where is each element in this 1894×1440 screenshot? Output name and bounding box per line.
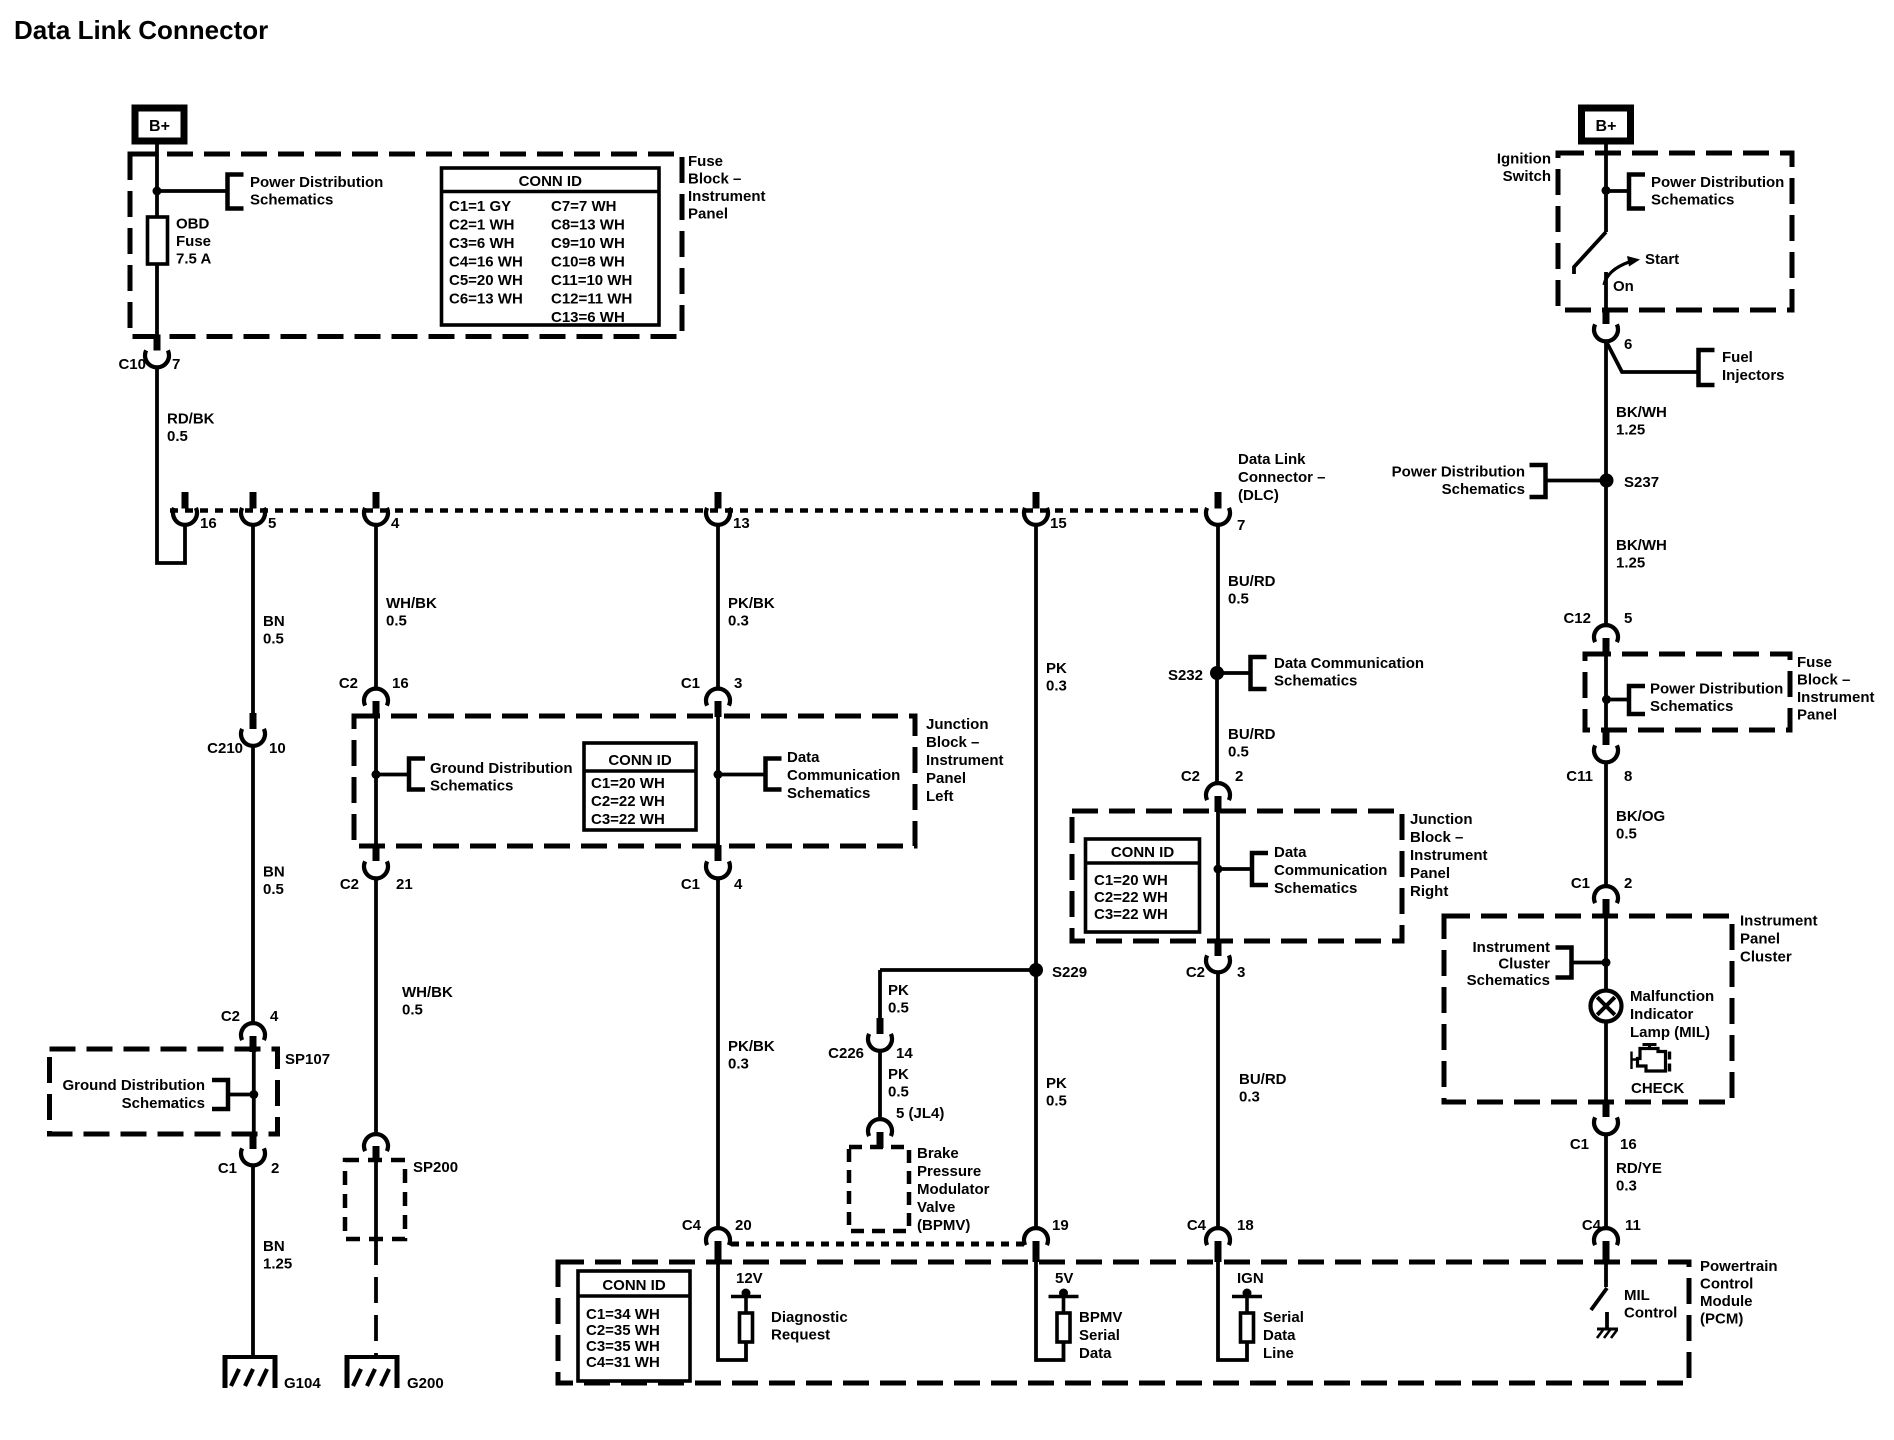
svg-text:C3=22 WH: C3=22 WH	[591, 811, 665, 828]
svg-text:Pressure: Pressure	[917, 1163, 981, 1180]
svg-text:0.3: 0.3	[1616, 1178, 1637, 1195]
svg-text:Start: Start	[1645, 251, 1679, 268]
svg-text:Power Distribution: Power Distribution	[1392, 464, 1525, 481]
DLC connector pin 5	[241, 492, 276, 532]
svg-text:0.5: 0.5	[263, 881, 284, 898]
label BPMV Serial Data	[1079, 1309, 1122, 1362]
svg-text:(BPMV): (BPMV)	[917, 1217, 970, 1234]
wire label RD/BK 0.5	[167, 411, 215, 446]
svg-text:Schematics: Schematics	[1467, 972, 1550, 989]
wire through junction block left (pin3-4)	[716, 717, 720, 846]
wire S232 down	[1215, 673, 1219, 783]
label Brake Pressure Modulator Valve (BPMV)	[917, 1145, 990, 1234]
svg-text:Instrument: Instrument	[1472, 939, 1550, 956]
node junction JB-right	[1214, 865, 1223, 874]
bracket to Power Distribution Schematics (ignition)	[1629, 175, 1645, 209]
ignition switch dashed box	[1558, 153, 1792, 310]
resistor BPMV serial data (5V pull-up)	[1036, 1262, 1079, 1360]
svg-text:7: 7	[1237, 517, 1245, 534]
svg-text:C4=31 WH: C4=31 WH	[586, 1354, 660, 1371]
connector C1 pin 3 (into junction block left)	[681, 675, 743, 717]
svg-text:1.25: 1.25	[263, 1256, 292, 1273]
svg-text:2: 2	[271, 1160, 279, 1177]
svg-text:Schematics: Schematics	[122, 1095, 205, 1112]
svg-text:5: 5	[268, 515, 276, 532]
svg-text:C10=8 WH: C10=8 WH	[551, 254, 625, 271]
wire label PK/BK 0.3 (lower)	[728, 1038, 775, 1073]
wire C226 to BPMV	[878, 1051, 882, 1119]
svg-text:On: On	[1613, 278, 1634, 295]
label Junction Block - Instrument Panel Right	[1410, 811, 1488, 900]
svg-text:(PCM): (PCM)	[1700, 1311, 1743, 1328]
svg-text:14: 14	[896, 1045, 913, 1062]
svg-text:Instrument: Instrument	[1740, 913, 1818, 930]
svg-text:Left: Left	[926, 788, 954, 805]
svg-text:Junction: Junction	[926, 716, 989, 733]
svg-text:0.5: 0.5	[263, 631, 284, 648]
wire label PK/BK 0.3 (upper)	[728, 595, 775, 630]
wire through junction block left (pin16-21)	[374, 717, 378, 846]
MIL control switch to ground	[1605, 1312, 1609, 1328]
svg-text:Schematics: Schematics	[1274, 673, 1357, 690]
svg-text:11: 11	[1625, 1217, 1641, 1234]
wire S237 to bracket (left)	[1546, 479, 1606, 483]
svg-text:0.5: 0.5	[1228, 591, 1249, 608]
label Malfunction Indicator Lamp (MIL)	[1630, 988, 1714, 1041]
bracket to Data Communication Schematics (JB left)	[766, 759, 782, 790]
wire S232 to bracket	[1217, 671, 1250, 675]
connector C2 pin 16 (into junction block left)	[339, 675, 409, 717]
wire C10 down and elbow to DLC pin 16	[157, 366, 185, 563]
svg-text:C13=6 WH: C13=6 WH	[551, 309, 625, 326]
svg-text:4: 4	[391, 515, 400, 532]
svg-text:Instrument: Instrument	[1410, 847, 1488, 864]
svg-text:Panel: Panel	[688, 206, 728, 223]
svg-text:5 (JL4): 5 (JL4)	[896, 1105, 944, 1122]
wire label WH/BK 0.5 (lower)	[402, 984, 453, 1019]
svg-text:C1: C1	[218, 1160, 237, 1177]
splice SP107 dashed box	[50, 1049, 278, 1134]
svg-text:C11: C11	[1566, 768, 1593, 785]
svg-text:C7=7 WH: C7=7 WH	[551, 198, 616, 215]
wire label PK 0.5 (branch lower)	[888, 1066, 909, 1101]
chassis ground (MIL control)	[1597, 1329, 1618, 1338]
svg-text:8: 8	[1624, 768, 1632, 785]
label Start	[1645, 251, 1679, 268]
splice SP200 dashed box	[345, 1160, 405, 1239]
svg-text:16: 16	[200, 515, 217, 532]
wire cluster junction to bracket	[1572, 961, 1606, 965]
wire JB-right junction to bracket	[1218, 867, 1252, 871]
svg-text:13: 13	[733, 515, 750, 532]
svg-text:Data: Data	[1079, 1345, 1112, 1362]
bracket to Ground Distribution Schematics (SP107)	[212, 1080, 228, 1109]
wire pin7 BU/RD down to S232	[1216, 524, 1220, 673]
node junction instrument cluster	[1602, 958, 1611, 967]
wire label BU/RD 0.5 (lower)	[1228, 726, 1276, 761]
svg-text:1.25: 1.25	[1616, 555, 1645, 572]
wire ignition output	[1604, 272, 1608, 310]
svg-text:Schematics: Schematics	[430, 778, 513, 795]
node junction SP107	[249, 1090, 258, 1099]
label Instrument Cluster Schematics	[1467, 939, 1551, 989]
MIL control switch blade	[1591, 1288, 1607, 1310]
connector pin 19 (into PCM)	[1024, 1217, 1069, 1262]
svg-text:C4: C4	[1582, 1217, 1602, 1234]
svg-text:15: 15	[1050, 515, 1067, 532]
label OBD Fuse 7.5 A	[176, 216, 211, 268]
svg-text:WH/BK: WH/BK	[402, 984, 453, 1001]
wire pin6 BK/WH down to S237	[1604, 340, 1608, 480]
svg-text:Brake: Brake	[917, 1145, 959, 1162]
svg-text:C5=20 WH: C5=20 WH	[449, 272, 523, 289]
svg-text:Fuse: Fuse	[176, 233, 211, 250]
label MIL Control	[1624, 1287, 1677, 1322]
label Power Distribution Schematics (S237)	[1392, 464, 1525, 499]
wire fuse to box edge	[155, 264, 159, 336]
svg-text:0.5: 0.5	[167, 428, 188, 445]
ignition switch blade	[1574, 232, 1606, 274]
svg-text:Communication: Communication	[1274, 862, 1387, 879]
wire C11 down to instrument panel cluster	[1604, 762, 1608, 886]
svg-text:C1=20 WH: C1=20 WH	[591, 775, 665, 792]
svg-text:0.3: 0.3	[1046, 678, 1067, 695]
wire C1-16 to PCM pin 11	[1604, 1134, 1608, 1229]
connector C1 pin 16 (below cluster)	[1570, 1101, 1637, 1153]
wire JB-left junction to bracket	[376, 773, 409, 777]
DLC connector pin 16	[173, 492, 217, 532]
svg-text:16: 16	[1620, 1136, 1637, 1153]
wire junction to bracket (power distribution)	[157, 189, 227, 193]
wire label BN 1.25	[263, 1238, 292, 1273]
connector into SP200	[364, 1134, 388, 1162]
wire label BN 0.5 (lower)	[263, 864, 285, 899]
conn id table (fuse block left)	[442, 168, 660, 326]
connector C2 pin 4 (into SP107)	[221, 1008, 279, 1052]
wire label BU/RD 0.5 (upper)	[1228, 573, 1276, 608]
DLC dotted line	[170, 508, 1206, 513]
wire label BK/OG 0.5	[1616, 808, 1665, 843]
svg-text:Ignition: Ignition	[1497, 151, 1551, 168]
svg-text:C12=11 WH: C12=11 WH	[551, 291, 632, 308]
DLC connector pin 7	[1206, 492, 1245, 534]
svg-text:PK: PK	[1046, 660, 1067, 677]
fuse block instrument panel dashed box (right)	[1585, 654, 1790, 730]
bracket to Data Communication Schematics (S232)	[1251, 657, 1267, 689]
svg-text:Serial: Serial	[1079, 1327, 1120, 1344]
svg-text:S237: S237	[1624, 474, 1659, 491]
svg-text:Malfunction: Malfunction	[1630, 988, 1714, 1005]
svg-text:BU/RD: BU/RD	[1228, 726, 1276, 743]
wire label BK/WH 1.25 (lower)	[1616, 537, 1667, 572]
connector C210 pin 10	[207, 713, 286, 757]
svg-text:SP200: SP200	[413, 1159, 458, 1176]
connector C2 pin 21 (below JB left)	[340, 845, 413, 893]
wire BN to SP107	[251, 745, 255, 1023]
wire pin13 PK/BK down	[716, 524, 720, 688]
svg-text:2: 2	[1624, 875, 1632, 892]
svg-text:18: 18	[1237, 1217, 1254, 1234]
svg-text:C1: C1	[1570, 1136, 1589, 1153]
svg-text:Control: Control	[1700, 1276, 1753, 1293]
wire into cluster	[1604, 916, 1608, 990]
lamp MIL (circle with X)	[1591, 991, 1622, 1022]
label pin 5 (JL4)	[896, 1105, 944, 1122]
wire label WH/BK 0.5 (upper)	[386, 595, 437, 630]
svg-text:21: 21	[396, 876, 413, 893]
label Data Communication Schematics (S232)	[1274, 655, 1424, 690]
svg-text:Panel: Panel	[1410, 865, 1450, 882]
svg-text:BN: BN	[263, 613, 285, 630]
junction block instrument panel left dashed box	[354, 716, 915, 846]
wire through junction block right	[1216, 812, 1220, 941]
wire label RD/YE 0.3	[1616, 1160, 1662, 1195]
svg-text:Valve: Valve	[917, 1199, 955, 1216]
label Ground Distribution Schematics (SP107)	[63, 1077, 205, 1112]
svg-text:Data: Data	[1263, 1327, 1296, 1344]
svg-text:0.5: 0.5	[888, 1084, 909, 1101]
svg-text:C2: C2	[1181, 768, 1200, 785]
label Diagnostic Request	[771, 1309, 848, 1344]
svg-text:C9=10 WH: C9=10 WH	[551, 235, 625, 252]
svg-text:Schematics: Schematics	[1274, 880, 1357, 897]
svg-text:Schematics: Schematics	[787, 785, 870, 802]
svg-text:BU/RD: BU/RD	[1228, 573, 1276, 590]
svg-text:C2: C2	[339, 675, 358, 692]
connector C1 pin 2 (into instrument panel cluster)	[1571, 875, 1633, 916]
svg-text:Block –: Block –	[1797, 672, 1850, 689]
wire C2-21 to SP200	[374, 878, 378, 1134]
svg-text:Fuse: Fuse	[688, 153, 723, 170]
wire label PK 0.5 (right)	[1046, 1075, 1067, 1110]
svg-text:Cluster: Cluster	[1740, 949, 1792, 966]
connector C4 pin 11 (into PCM)	[1582, 1217, 1641, 1262]
resistor diagnostic request (12V pull-up)	[718, 1262, 761, 1360]
ground G104	[223, 1355, 321, 1392]
wire label PK 0.5 (branch upper)	[888, 982, 909, 1017]
label Powertrain Control Module (PCM)	[1700, 1258, 1778, 1328]
svg-text:C226: C226	[828, 1045, 864, 1062]
svg-text:PK: PK	[1046, 1075, 1067, 1092]
svg-text:Powertrain: Powertrain	[1700, 1258, 1778, 1275]
node junction in fuse block (left)	[153, 187, 162, 196]
svg-text:Request: Request	[771, 1327, 830, 1344]
svg-text:B+: B+	[149, 118, 170, 135]
label Fuse Block - Instrument Panel (right)	[1797, 654, 1875, 724]
bracket to Ground Distribution Schematics (JB left)	[409, 759, 425, 790]
svg-text:C1: C1	[681, 876, 700, 893]
dashed wire SP200 to G200	[374, 1239, 378, 1357]
svg-text:Instrument: Instrument	[688, 188, 766, 205]
DLC connector pin 15	[1024, 492, 1067, 532]
svg-text:C4=16 WH: C4=16 WH	[449, 254, 523, 271]
node junction fuse block right	[1602, 695, 1611, 704]
svg-text:C12: C12	[1563, 610, 1591, 627]
wire lamp to cluster bottom	[1604, 1022, 1608, 1102]
wire C2-3 to PCM pin 18	[1216, 972, 1220, 1229]
label Data Link Connector (DLC)	[1238, 451, 1326, 504]
svg-text:12V: 12V	[736, 1270, 763, 1287]
wire through fuse block right	[1604, 655, 1608, 730]
svg-text:WH/BK: WH/BK	[386, 595, 437, 612]
svg-text:S229: S229	[1052, 964, 1087, 981]
svg-text:Panel: Panel	[926, 770, 966, 787]
connector C226 pin 14	[828, 1018, 913, 1062]
instrument panel cluster dashed box	[1444, 916, 1732, 1102]
svg-text:Schematics: Schematics	[1651, 192, 1734, 209]
svg-text:Junction: Junction	[1410, 811, 1473, 828]
svg-text:10: 10	[269, 740, 286, 757]
svg-text:19: 19	[1052, 1217, 1069, 1234]
label Data Communication Schematics (JB right)	[1274, 844, 1387, 897]
ground G200	[345, 1355, 444, 1392]
svg-text:Ground Distribution: Ground Distribution	[63, 1077, 205, 1094]
svg-text:C2=22 WH: C2=22 WH	[1094, 889, 1168, 906]
svg-text:SP107: SP107	[285, 1051, 330, 1068]
wire label PK 0.3	[1046, 660, 1067, 695]
svg-text:Block –: Block –	[926, 734, 979, 751]
connector C4 pin 20 (into PCM)	[682, 1217, 752, 1262]
bracket to Power Distribution Schematics (S237)	[1530, 465, 1546, 497]
svg-text:3: 3	[1237, 964, 1245, 981]
svg-text:Data: Data	[1274, 844, 1307, 861]
node junction JB-left (ground distribution)	[372, 770, 381, 779]
svg-text:(DLC): (DLC)	[1238, 487, 1279, 504]
svg-text:Power Distribution: Power Distribution	[1650, 681, 1783, 698]
svg-text:Block –: Block –	[688, 171, 741, 188]
label Instrument Panel Cluster	[1740, 913, 1818, 966]
svg-text:Right: Right	[1410, 883, 1448, 900]
svg-text:C2=22 WH: C2=22 WH	[591, 793, 665, 810]
label Junction Block - Instrument Panel Left	[926, 716, 1004, 805]
svg-text:G200: G200	[407, 1375, 444, 1392]
label Fuse Block - Instrument Panel (left)	[688, 153, 766, 223]
fuse OBD 7.5A	[148, 217, 168, 264]
svg-text:0.5: 0.5	[1046, 1093, 1067, 1110]
svg-text:C1=20 WH: C1=20 WH	[1094, 872, 1168, 889]
svg-text:Serial: Serial	[1263, 1309, 1304, 1326]
label Data Communication Schematics (JB left)	[787, 749, 900, 802]
svg-text:BK/OG: BK/OG	[1616, 808, 1665, 825]
svg-text:C1: C1	[681, 675, 700, 692]
label On	[1613, 278, 1634, 295]
battery feed B+ terminal (right)	[1582, 108, 1631, 141]
svg-text:Ground Distribution: Ground Distribution	[430, 760, 572, 777]
node junction ignition switch	[1602, 186, 1611, 195]
wire pin4 WH/BK down	[374, 524, 378, 688]
svg-text:Diagnostic: Diagnostic	[771, 1309, 848, 1326]
wire through SP200	[374, 1162, 378, 1239]
bracket to Instrument Cluster Schematics	[1556, 948, 1572, 978]
svg-text:CONN ID: CONN ID	[602, 1277, 666, 1294]
node junction JB-left (data communication)	[714, 770, 723, 779]
wire label BK/WH 1.25 (upper)	[1616, 404, 1667, 439]
svg-text:C1: C1	[1571, 875, 1590, 892]
svg-text:0.5: 0.5	[1616, 826, 1637, 843]
svg-text:2: 2	[1235, 768, 1243, 785]
svg-text:4: 4	[734, 876, 743, 893]
svg-text:Data Link Connector: Data Link Connector	[14, 15, 268, 45]
svg-text:C2: C2	[1186, 964, 1205, 981]
svg-text:C4: C4	[682, 1217, 702, 1234]
svg-text:CHECK: CHECK	[1631, 1080, 1685, 1097]
svg-text:4: 4	[270, 1008, 279, 1025]
bracket to Power Distribution Schematics (fuse block left)	[228, 175, 244, 209]
svg-text:Module: Module	[1700, 1293, 1753, 1310]
DLC connector pin 13	[706, 492, 750, 532]
wire through SP107	[252, 1051, 256, 1134]
svg-text:Data: Data	[787, 749, 820, 766]
wire C1-2 to G104	[251, 1165, 255, 1357]
svg-text:BK/WH: BK/WH	[1616, 404, 1667, 421]
connector C11 pin 8 (below fuse block right)	[1566, 729, 1632, 785]
label Serial Data Line	[1263, 1309, 1304, 1362]
connector pin 5 JL4 (into BPMV)	[868, 1119, 892, 1148]
connector C2 pin 2 (into junction block right)	[1181, 768, 1244, 812]
svg-text:MIL: MIL	[1624, 1287, 1650, 1304]
svg-text:Connector –: Connector –	[1238, 469, 1326, 486]
svg-text:Modulator: Modulator	[917, 1181, 990, 1198]
BPMV dashed box	[849, 1147, 909, 1231]
svg-text:Block –: Block –	[1410, 829, 1463, 846]
svg-text:S232: S232	[1168, 667, 1203, 684]
svg-text:5: 5	[1624, 610, 1632, 627]
svg-text:0.3: 0.3	[1239, 1089, 1260, 1106]
svg-text:BN: BN	[263, 864, 285, 881]
svg-text:C2: C2	[221, 1008, 240, 1025]
wire label BN 0.5 (upper)	[263, 613, 285, 648]
wire S237 down to C12	[1604, 480, 1608, 625]
svg-text:0.5: 0.5	[888, 1000, 909, 1017]
node splice S237	[1600, 474, 1660, 492]
svg-text:Line: Line	[1263, 1345, 1294, 1362]
junction block instrument panel right dashed box	[1072, 811, 1402, 941]
label SP200	[413, 1159, 458, 1176]
svg-text:Cluster: Cluster	[1498, 956, 1550, 973]
svg-text:IGN: IGN	[1237, 1270, 1264, 1287]
wire B+ to fuse	[155, 143, 159, 217]
label Fuel Injectors	[1722, 349, 1785, 384]
label CHECK	[1631, 1080, 1685, 1097]
label Power Distribution Schematics (fuse block right)	[1650, 681, 1783, 716]
svg-text:1.25: 1.25	[1616, 422, 1645, 439]
svg-text:Control: Control	[1624, 1305, 1677, 1322]
svg-text:OBD: OBD	[176, 216, 210, 233]
connector C1 pin 2 (below SP107)	[218, 1133, 280, 1177]
wire branch down to C226	[878, 970, 882, 1018]
svg-text:0.5: 0.5	[1228, 744, 1249, 761]
bracket to Data Communication Schematics (JB right)	[1252, 853, 1268, 885]
svg-text:RD/BK: RD/BK	[167, 411, 215, 428]
svg-text:7.5 A: 7.5 A	[176, 251, 211, 268]
wire C1-4 to PCM pin 20	[716, 878, 720, 1229]
svg-text:Data Communication: Data Communication	[1274, 655, 1424, 672]
svg-text:PK/BK: PK/BK	[728, 1038, 775, 1055]
svg-text:CONN ID: CONN ID	[519, 173, 583, 190]
svg-text:Data Link: Data Link	[1238, 451, 1306, 468]
svg-text:BU/RD: BU/RD	[1239, 1071, 1287, 1088]
wire label BU/RD 0.3	[1239, 1071, 1287, 1106]
svg-text:CONN ID: CONN ID	[608, 752, 672, 769]
svg-text:C11=10 WH: C11=10 WH	[551, 272, 632, 289]
svg-text:C4: C4	[1187, 1217, 1207, 1234]
wire SP107 junction to bracket	[228, 1093, 253, 1097]
svg-text:PK: PK	[888, 1066, 909, 1083]
ignition switch start arrow	[1604, 256, 1640, 285]
title	[14, 15, 268, 45]
svg-text:Instrument: Instrument	[1797, 689, 1875, 706]
svg-text:C1=34 WH: C1=34 WH	[586, 1306, 660, 1323]
